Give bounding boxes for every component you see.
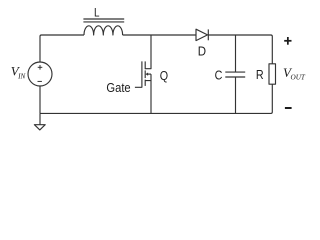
transistor Q body arrow shaft [147,73,151,75]
svg-text:C: C [215,68,223,83]
svg-text:IN: IN [17,73,26,81]
capacitor C top plate [225,71,245,73]
wire bottom rail with corner up to resistor [40,84,272,113]
output minus sign [285,107,292,109]
wire top rail middle segment [123,34,196,36]
ground triangle [34,125,45,130]
transistor Q body to source lead [145,74,151,81]
capacitor C bottom plate [225,76,245,78]
inductor core line 1 [83,18,124,20]
inductor core line 2 [83,21,124,23]
wire mosfet source down [150,81,152,114]
diode D cathode bar [207,29,209,40]
svg-text:Gate: Gate [106,80,131,95]
wire capacitor bottom [235,77,237,113]
output plus sign [284,37,291,45]
wire capacitor top [235,35,237,72]
svg-text:D: D [198,44,207,59]
source VIN circle [28,62,52,86]
wire top-left corner from source up to inductor [40,35,84,62]
wire top rail right segment with corner down to resistor [208,35,272,64]
inductor L coil [84,26,123,35]
wire Vin bottom [39,86,41,113]
source polarity plus [38,65,43,81]
svg-text:OUT: OUT [291,74,306,82]
transistor Q channel bottom segment [144,80,146,86]
svg-text:Q: Q [160,68,168,83]
ground stem [39,113,41,124]
diode D triangle [196,29,208,40]
transistor Q channel top segment [144,61,146,69]
wire mosfet drain [145,35,151,69]
svg-text:R: R [256,67,264,82]
svg-text:L: L [94,7,100,20]
resistor R box [269,64,276,84]
transistor Q gate bar [135,61,142,87]
transistor Q channel middle segment [144,70,146,78]
transistor Q body arrow head [145,72,148,75]
source polarity minus [38,80,42,82]
